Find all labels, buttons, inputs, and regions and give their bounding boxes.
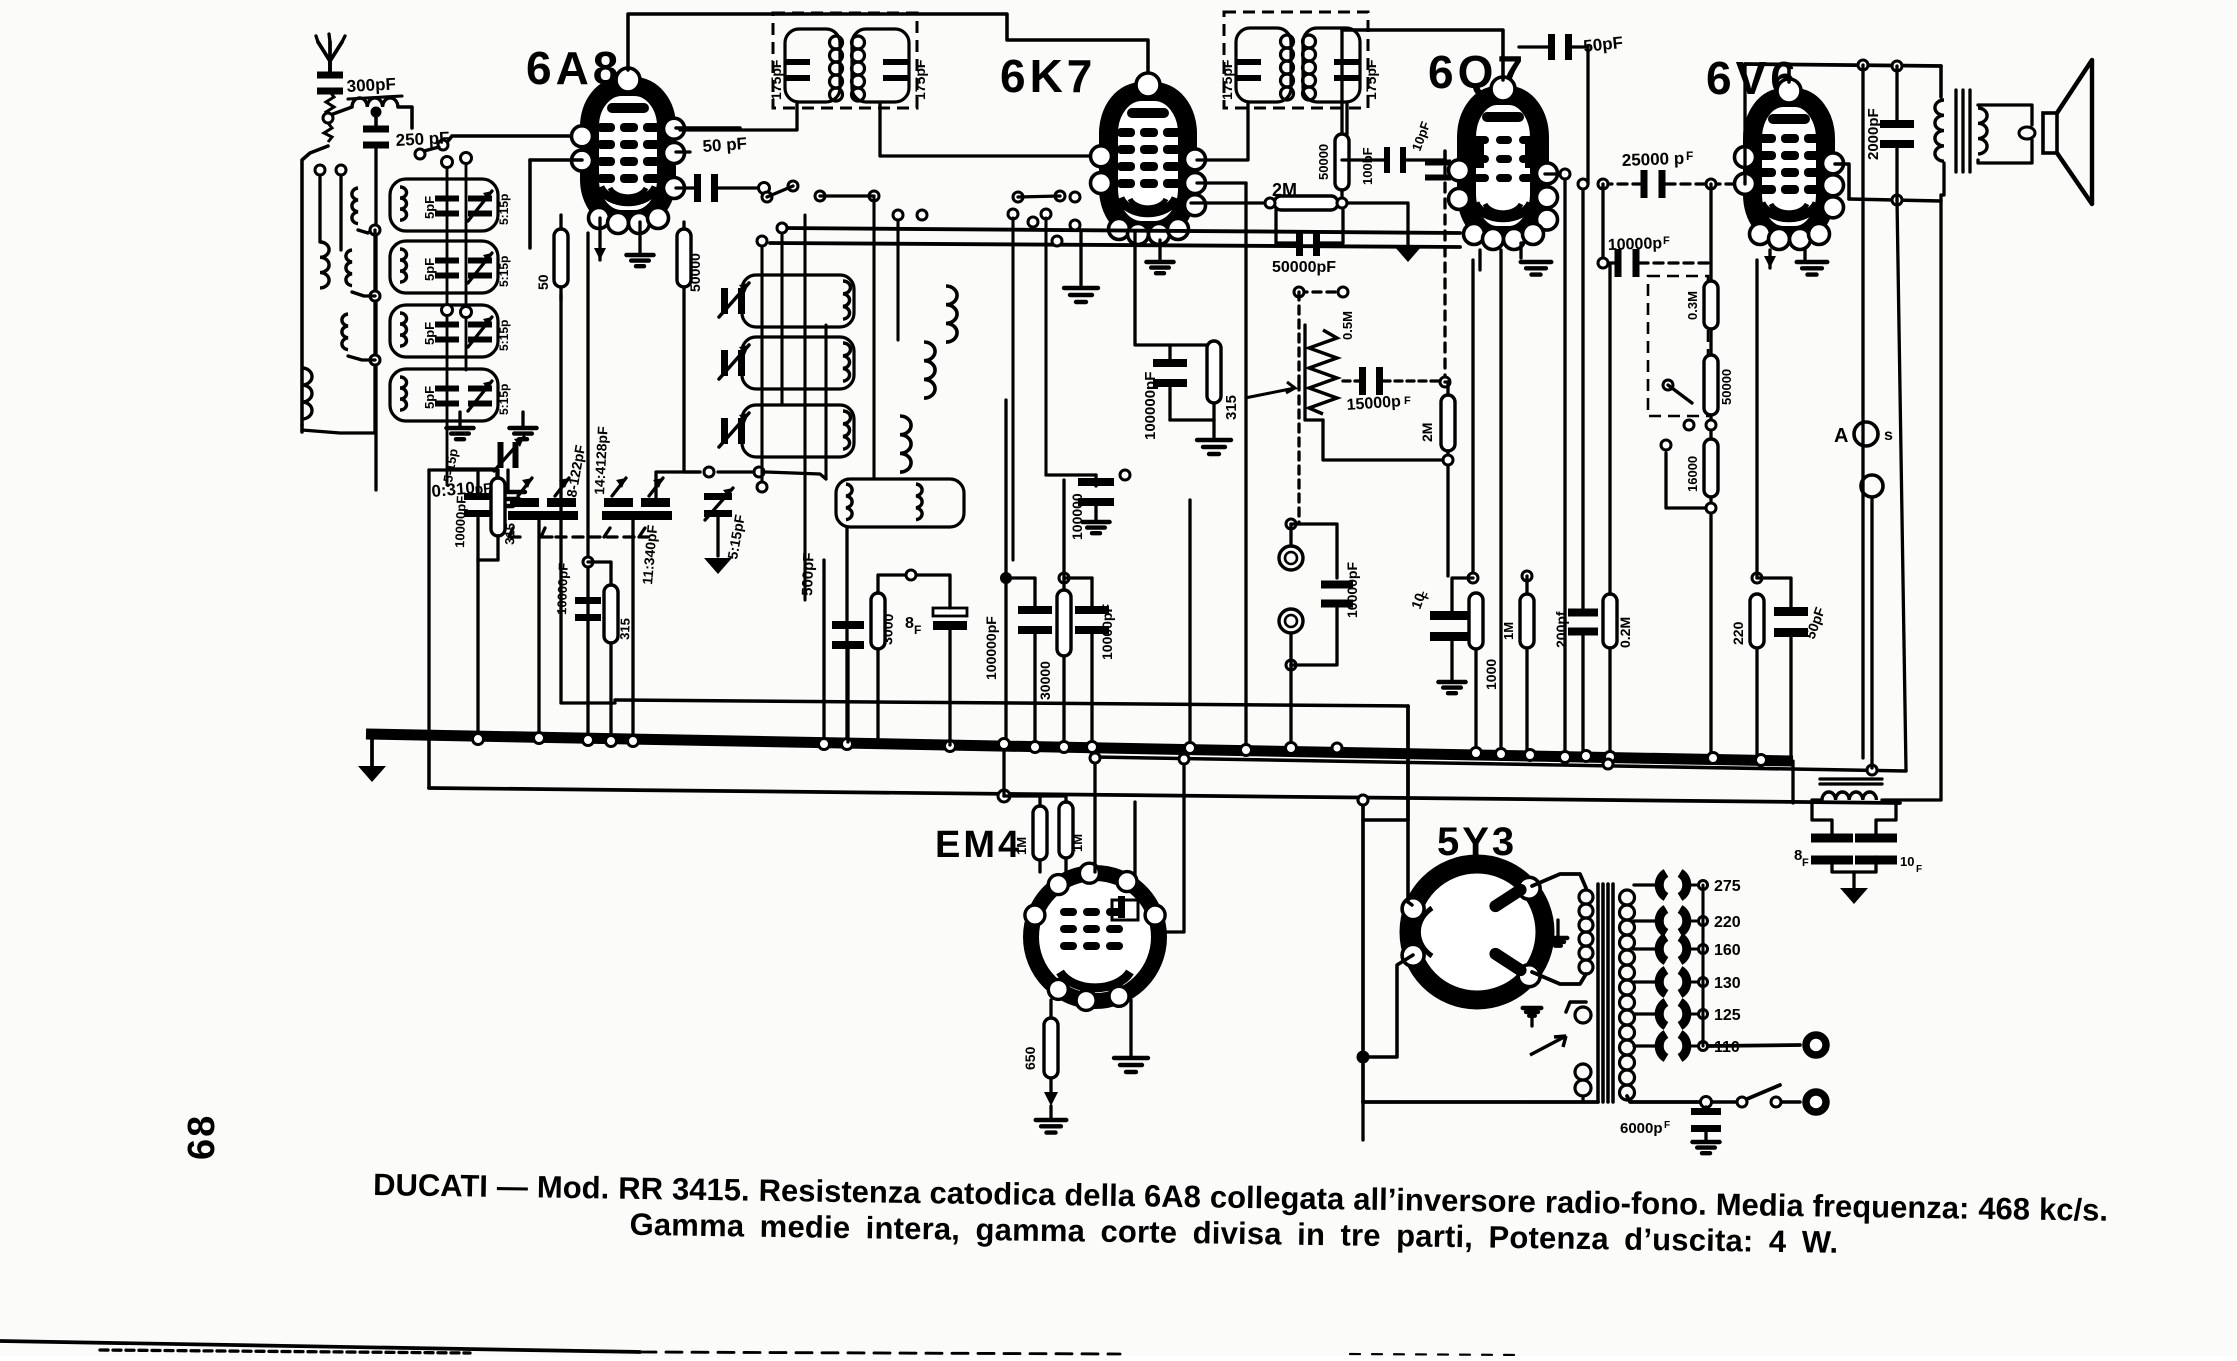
svg-text:175pF: 175pF [1363, 59, 1379, 100]
svg-text:200pf: 200pf [1553, 611, 1569, 648]
svg-text:315: 315 [502, 523, 518, 545]
svg-text:10: 10 [1900, 854, 1914, 869]
svg-text:F: F [1802, 857, 1809, 869]
svg-text:650: 650 [1022, 1046, 1038, 1070]
svg-text:5:15p: 5:15p [497, 194, 511, 225]
svg-text:A: A [1834, 425, 1848, 447]
svg-text:F: F [1663, 235, 1670, 247]
svg-text:175pF: 175pF [1219, 59, 1235, 100]
svg-text:50000: 50000 [687, 253, 703, 292]
svg-text:F: F [1664, 1120, 1670, 1131]
svg-text:175pF: 175pF [912, 59, 928, 100]
svg-text:F: F [1404, 395, 1411, 407]
svg-text:300pF: 300pF [346, 74, 396, 96]
svg-text:220: 220 [1714, 914, 1741, 931]
svg-text:F: F [1686, 149, 1693, 163]
svg-text:EM4: EM4 [935, 824, 1022, 866]
svg-text:6K7: 6K7 [1000, 50, 1096, 102]
svg-text:F: F [1916, 864, 1922, 875]
svg-text:275: 275 [1714, 878, 1741, 895]
svg-text:50: 50 [535, 274, 551, 290]
svg-text:8: 8 [905, 615, 914, 632]
svg-text:1M: 1M [1014, 837, 1029, 855]
svg-text:100000pF: 100000pF [983, 616, 999, 680]
svg-text:5pF: 5pF [422, 386, 437, 409]
svg-text:250 pF: 250 pF [395, 128, 450, 150]
svg-text:50000: 50000 [1316, 144, 1331, 180]
svg-text:16000: 16000 [1685, 456, 1700, 492]
svg-text:220: 220 [1730, 621, 1746, 645]
svg-text:5:15p: 5:15p [497, 384, 511, 415]
svg-text:315: 315 [617, 618, 633, 640]
svg-text:68: 68 [181, 1114, 223, 1160]
svg-text:100000: 100000 [1069, 493, 1085, 540]
svg-text:6000p: 6000p [1620, 1120, 1663, 1137]
svg-text:s: s [1884, 427, 1893, 444]
svg-text:1M: 1M [1070, 834, 1085, 852]
svg-text:100000pF: 100000pF [1142, 372, 1159, 440]
svg-text:1000: 1000 [1483, 659, 1499, 690]
svg-text:5:15p: 5:15p [497, 256, 511, 287]
svg-text:2M: 2M [1272, 180, 1297, 200]
svg-text:50000pF: 50000pF [1272, 259, 1336, 276]
svg-text:F: F [914, 623, 921, 637]
svg-text:10000pF: 10000pF [452, 496, 469, 549]
svg-text:10000pF: 10000pF [1099, 604, 1115, 660]
svg-text:500pF: 500pF [799, 552, 818, 596]
svg-text:160: 160 [1714, 942, 1741, 959]
svg-text:0.3M: 0.3M [1685, 291, 1700, 320]
svg-text:130: 130 [1714, 975, 1741, 992]
svg-text:50000: 50000 [1719, 369, 1734, 405]
svg-text:5pF: 5pF [422, 196, 437, 219]
svg-text:50 pF: 50 pF [702, 134, 748, 156]
svg-text:2000pF: 2000pF [1865, 108, 1882, 160]
svg-text:5pF: 5pF [422, 258, 437, 281]
svg-text:315: 315 [1223, 395, 1240, 420]
svg-text:1M: 1M [1501, 622, 1516, 640]
svg-text:100bF: 100bF [1360, 147, 1375, 185]
svg-text:5:15p: 5:15p [497, 320, 511, 351]
svg-text:5pF: 5pF [422, 322, 437, 345]
svg-text:125: 125 [1714, 1007, 1741, 1024]
svg-text:0.5M: 0.5M [1340, 311, 1355, 340]
svg-text:175pF: 175pF [768, 59, 784, 100]
svg-text:0.2M: 0.2M [1617, 617, 1633, 648]
svg-text:2M: 2M [1419, 423, 1435, 442]
svg-text:30000: 30000 [1037, 661, 1053, 700]
svg-text:10000pF: 10000pF [1344, 562, 1360, 618]
svg-text:25000 p: 25000 p [1621, 149, 1684, 170]
